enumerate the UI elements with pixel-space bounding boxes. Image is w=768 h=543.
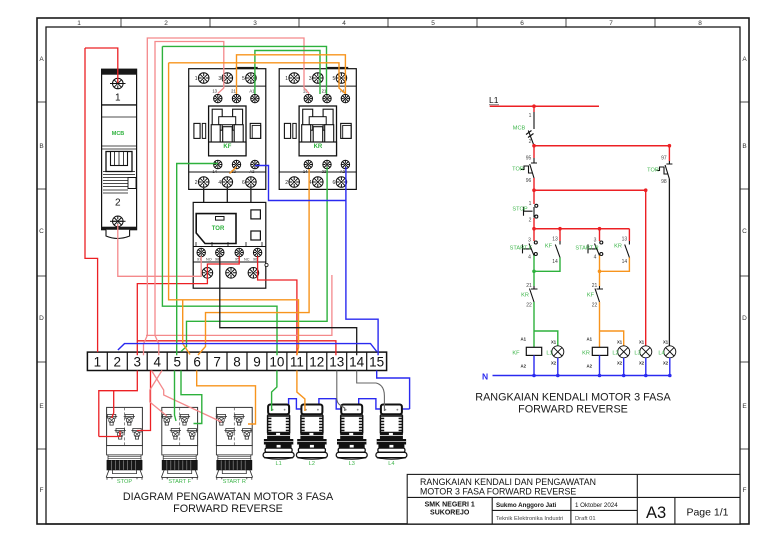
wire pink bundle to KR 13 [147, 38, 309, 335]
svg-text:6: 6 [520, 20, 524, 27]
svg-text:2: 2 [529, 139, 532, 145]
pilot lamp L4 [376, 405, 407, 467]
contact KF aux NO [559, 229, 561, 241]
contact KR aux NO [628, 229, 630, 241]
pilot lamp L2 [296, 405, 327, 467]
terminal strip 1-15 [87, 352, 386, 370]
svg-text:X2: X2 [551, 361, 557, 366]
svg-text:E: E [742, 403, 747, 410]
wire blue T15 to lamp bus [377, 371, 410, 410]
contact TOR 97-98 [657, 161, 673, 179]
svg-text:L1: L1 [546, 351, 552, 357]
wire red T3 to left rail [99, 371, 138, 437]
svg-text:14: 14 [552, 259, 558, 265]
svg-text:1: 1 [115, 93, 121, 104]
wire pink bundle to KF 13 [155, 42, 224, 336]
wire blue drops to N [534, 355, 670, 375]
svg-text:KF: KF [223, 144, 231, 150]
breaker MCB ladder [526, 112, 534, 146]
svg-text:Sukmo Anggoro Jati: Sukmo Anggoro Jati [496, 502, 557, 509]
pilot lamp L1 [263, 405, 294, 467]
wire red bus 2 [534, 189, 646, 191]
lamp L1 ladder [552, 346, 564, 358]
svg-text:Page 1/1: Page 1/1 [686, 507, 728, 519]
svg-text:8: 8 [698, 20, 702, 27]
svg-text:X1: X1 [551, 340, 557, 345]
wire green T5 to START F LR [181, 371, 202, 424]
wire red supply to MCB 1 [85, 48, 118, 83]
wire orange KR 14 to T6 [198, 169, 309, 355]
svg-text:22: 22 [526, 303, 532, 309]
svg-text:1: 1 [77, 20, 81, 27]
wire red STOP out [533, 218, 535, 229]
MCB circuit breaker [102, 69, 137, 238]
wire green KR 22 to T5 [181, 167, 327, 352]
lamp L2 ladder [618, 346, 630, 358]
wiring: green wires [162, 46, 327, 423]
coil KF [526, 347, 541, 355]
svg-text:13: 13 [622, 237, 628, 243]
push button START F [161, 407, 198, 485]
svg-text:SMK NEGERI 1: SMK NEGERI 1 [425, 502, 475, 509]
title block [407, 474, 740, 524]
wire red to lamp L3 [645, 190, 647, 346]
wire green to coil KF [534, 302, 558, 347]
svg-text:21: 21 [592, 283, 598, 289]
wire orange T11 to lamp L2 [297, 371, 305, 412]
junction dot [532, 104, 536, 108]
wire orange to coil KR [600, 302, 624, 347]
svg-text:KF: KF [512, 351, 520, 357]
wire orange merge R [600, 256, 630, 272]
svg-text:E: E [39, 403, 44, 410]
svg-text:10: 10 [269, 354, 284, 369]
wire orange KF 21 to KR A1 [237, 55, 346, 94]
wire black KF to TOR stubs [204, 188, 251, 202]
frame row labels [39, 56, 747, 494]
svg-text:7: 7 [213, 354, 221, 369]
svg-text:15: 15 [369, 354, 384, 369]
svg-text:5: 5 [431, 20, 435, 27]
contactor KF [189, 67, 266, 190]
svg-text:A3: A3 [646, 504, 666, 522]
svg-text:95: 95 [526, 156, 532, 162]
svg-text:8: 8 [233, 354, 241, 369]
wire green to interlock [533, 271, 535, 286]
svg-text:96: 96 [526, 178, 532, 184]
wire blue KR A2 to T15 [346, 167, 378, 355]
wire green top bus to KR 21 [162, 46, 326, 94]
wire green T10 to lamp L1 [272, 371, 277, 412]
svg-text:9: 9 [253, 354, 261, 369]
wire blue lamp neutral bus [289, 399, 410, 412]
svg-text:A: A [39, 56, 44, 63]
svg-text:RANGKAIAN KENDALI MOTOR 3 FASA: RANGKAIAN KENDALI MOTOR 3 FASA [475, 392, 671, 404]
contact KR NC interlock [530, 286, 538, 302]
svg-text:7: 7 [609, 20, 613, 27]
caption left: diagram pengawatan [123, 491, 334, 515]
svg-text:F: F [40, 487, 44, 494]
wire pink T4 fan to START F [150, 371, 167, 417]
svg-text:FORWARD REVERSE: FORWARD REVERSE [173, 503, 283, 515]
svg-text:F: F [743, 487, 747, 494]
svg-text:5: 5 [173, 354, 181, 369]
wire red STOP LR to T4 [137, 371, 151, 431]
wire red TOR 96 loop [258, 256, 297, 355]
pushbutton START F ladder [533, 229, 535, 241]
svg-text:TOR: TOR [647, 168, 659, 174]
svg-text:STOP: STOP [117, 479, 132, 485]
svg-text:4: 4 [342, 20, 346, 27]
svg-text:L3: L3 [349, 461, 355, 467]
svg-text:1: 1 [529, 113, 532, 119]
wire orange long drop to T11 [169, 63, 299, 355]
svg-text:RANGKAIAN KENDALI DAN PENGAWAT: RANGKAIAN KENDALI DAN PENGAWATAN [420, 477, 596, 487]
svg-text:START F: START F [168, 479, 191, 485]
svg-text:2: 2 [114, 354, 122, 369]
wire red bus 3 [534, 228, 629, 230]
wiring: grey lamp feeds [337, 371, 385, 412]
wire blue KF A2 to KR A2 [255, 166, 346, 201]
wire orange to interlock [599, 271, 601, 286]
push button START R [216, 407, 253, 485]
svg-text:11: 11 [290, 354, 304, 369]
wire red to TOR 2 [668, 146, 670, 161]
wire orange T6 to START R [197, 371, 256, 425]
svg-text:L4: L4 [388, 461, 394, 467]
svg-text:X2: X2 [639, 361, 645, 366]
svg-text:L3: L3 [634, 351, 640, 357]
svg-text:MOTOR 3 FASA FORWARD REVERSE: MOTOR 3 FASA FORWARD REVERSE [420, 487, 576, 497]
svg-text:D: D [742, 315, 747, 322]
svg-text:DIAGRAM PENGAWATAN MOTOR 3 FAS: DIAGRAM PENGAWATAN MOTOR 3 FASA [123, 491, 334, 503]
wire grey T14 to lamp L4 [357, 371, 385, 412]
svg-text:KR: KR [314, 144, 323, 150]
svg-text:KR: KR [521, 293, 529, 299]
svg-text:MCB: MCB [513, 126, 526, 132]
svg-text:START F: START F [510, 246, 533, 252]
svg-text:NO: NO [206, 258, 212, 262]
svg-text:L2: L2 [612, 351, 618, 357]
wire red TOR 95 to T3 [137, 256, 239, 355]
svg-text:1: 1 [94, 354, 102, 369]
pushbutton STOP ladder [524, 204, 538, 218]
lamp L3 ladder [640, 346, 652, 358]
frame row ticks left and right [37, 102, 749, 449]
svg-text:L2: L2 [309, 461, 315, 467]
svg-text:A2: A2 [587, 364, 593, 369]
svg-text:4: 4 [594, 255, 597, 261]
svg-text:L4: L4 [658, 351, 664, 357]
svg-text:KF: KF [545, 244, 553, 250]
lamp L4 ladder [664, 346, 676, 358]
contact TOR 95-96 [521, 158, 537, 178]
svg-text:STOP: STOP [512, 207, 527, 213]
svg-text:A2: A2 [521, 364, 527, 369]
wire green KF 14 to T5 [177, 164, 218, 356]
svg-text:FORWARD REVERSE: FORWARD REVERSE [518, 404, 628, 416]
svg-text:D: D [39, 315, 44, 322]
svg-text:X1: X1 [639, 340, 645, 345]
svg-text:14: 14 [349, 354, 365, 369]
svg-text:4: 4 [528, 255, 531, 261]
svg-text:X2: X2 [617, 361, 623, 366]
svg-text:C: C [742, 228, 747, 235]
svg-text:6: 6 [193, 354, 201, 369]
wire orange second top run [169, 63, 346, 94]
wire L1 red line [490, 105, 599, 107]
svg-text:2: 2 [164, 20, 168, 27]
wire black TOR 98 to T14 [220, 257, 357, 355]
svg-text:X1: X1 [663, 340, 669, 345]
wiring: blue neutral wires [118, 166, 410, 410]
wiring: pink wires [118, 38, 332, 422]
svg-text:96: 96 [253, 258, 257, 262]
pilot lamp L3 [336, 405, 367, 467]
contactor KR [279, 67, 356, 190]
wire red stub to TOR [533, 146, 535, 158]
svg-text:SUKOREJO: SUKOREJO [430, 510, 470, 517]
wire red rail stub [533, 106, 535, 112]
wire pink T4 fan to START R [152, 371, 222, 423]
wiring: black control wires [204, 188, 357, 355]
svg-text:KR: KR [582, 351, 590, 357]
svg-text:A1: A1 [587, 337, 593, 342]
contact KF NC interlock [595, 286, 603, 302]
wire green KF A1 link [255, 51, 320, 95]
svg-text:Teknik Elektronika Industri: Teknik Elektronika Industri [496, 516, 563, 522]
svg-text:3: 3 [528, 238, 531, 244]
svg-text:1: 1 [529, 201, 532, 207]
wire pink into T3 T4 [144, 335, 159, 355]
svg-text:B: B [742, 143, 746, 150]
svg-text:98: 98 [661, 179, 667, 185]
wire blue thin above strip [118, 344, 377, 352]
svg-text:MCB: MCB [112, 131, 125, 137]
wire grey T13 to lamp L3 [337, 371, 345, 412]
wiring: orange wires [169, 55, 346, 424]
svg-text:L1: L1 [275, 461, 281, 467]
wire pink long above strip [146, 275, 332, 335]
wire green long drop to T10 [162, 46, 277, 355]
svg-text:4: 4 [153, 354, 161, 369]
svg-text:2: 2 [529, 218, 532, 224]
wire red branch to STOP UL [112, 391, 114, 418]
wire red stub to STOP [533, 190, 535, 204]
svg-text:14: 14 [622, 259, 628, 265]
svg-text:KR: KR [614, 244, 622, 250]
svg-text:12: 12 [309, 354, 324, 369]
frame column labels [77, 20, 702, 27]
svg-text:A: A [742, 56, 747, 63]
svg-text:Draft 01: Draft 01 [575, 516, 596, 522]
svg-text:1 Oktober 2024: 1 Oktober 2024 [575, 502, 618, 509]
svg-text:B: B [39, 143, 43, 150]
svg-text:3: 3 [253, 20, 257, 27]
svg-text:97: 97 [661, 156, 667, 162]
svg-text:3: 3 [594, 238, 597, 244]
wire red rail to STOP LL [99, 431, 120, 437]
frame column ticks top [121, 18, 655, 27]
wire black to lamp L4 [668, 179, 670, 346]
wiring: red phase wires [85, 48, 336, 437]
svg-text:A1: A1 [521, 337, 527, 342]
wire pink MCB 2 to TOR 97 [118, 224, 201, 276]
svg-text:START R: START R [575, 246, 598, 252]
svg-text:X2: X2 [663, 361, 669, 366]
svg-text:C: C [39, 228, 44, 235]
svg-text:21: 21 [526, 283, 532, 289]
svg-text:98: 98 [215, 258, 219, 262]
coil KR [592, 347, 607, 355]
svg-text:KF: KF [587, 293, 595, 299]
pushbutton START R ladder [599, 229, 601, 241]
wire red left rail [85, 48, 98, 352]
svg-text:3: 3 [134, 354, 142, 369]
svg-text:X1: X1 [617, 340, 623, 345]
thermal overload relay TOR [193, 202, 268, 288]
wire red T13 branch [137, 341, 336, 355]
svg-text:22: 22 [592, 303, 598, 309]
svg-text:NC: NC [244, 258, 250, 262]
wire red TOR out [533, 178, 535, 190]
svg-text:2: 2 [115, 198, 121, 209]
caption right: rangkaian kendali [475, 392, 671, 416]
svg-text:L1: L1 [489, 95, 499, 105]
svg-text:TOR: TOR [212, 226, 225, 232]
wire red bus 1 [534, 145, 669, 147]
svg-text:START R: START R [223, 479, 246, 485]
svg-text:TOR: TOR [512, 167, 524, 173]
svg-text:13: 13 [329, 354, 344, 369]
svg-text:N: N [482, 372, 488, 382]
wire green merge F [534, 256, 560, 272]
svg-text:13: 13 [552, 237, 558, 243]
push button STOP [106, 407, 143, 485]
wire green T5 to START F LL [175, 371, 177, 422]
